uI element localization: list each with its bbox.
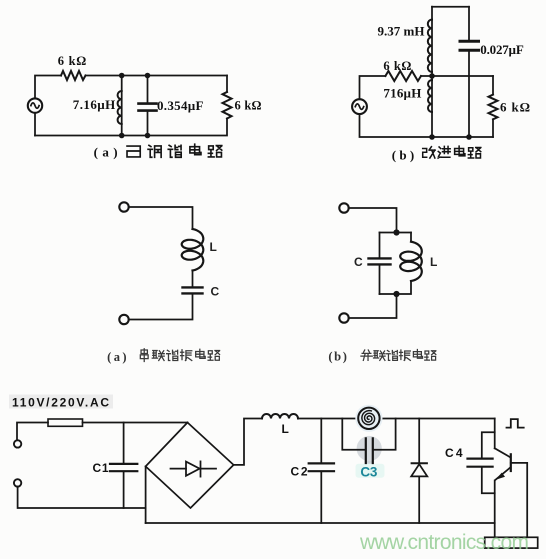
transistor Q1 base bar (510, 454, 512, 471)
wire: source top lead + top-left rail segment (35, 76, 61, 98)
bridge rectifier D1 diamond (146, 423, 234, 509)
svg-text:L: L (282, 422, 289, 436)
svg-text:www.cntronics.com: www.cntronics.com (359, 531, 529, 554)
svg-text:(b): (b) (392, 147, 415, 162)
capacitor C2 plates (309, 463, 334, 471)
capacitor C1 upper lead (123, 423, 125, 463)
terminal top (119, 202, 128, 211)
node dot top-left (119, 73, 125, 79)
inductor L1 7.16uH leads/stem (121, 76, 123, 136)
transistor Q1 collector diagonal (495, 448, 511, 457)
wire: middle rail left + source top lead (360, 76, 386, 99)
capacitor C1 plates (110, 464, 137, 471)
inductor L coil (horizontal) (262, 414, 298, 419)
C3 highlight circle (357, 436, 382, 461)
zener diode cathode bar (412, 462, 427, 464)
node dot bottom-right (145, 133, 151, 139)
inductor 9.37mH coil (431, 7, 433, 76)
caption (a) series resonant (107, 350, 127, 364)
wire: source bottom lead + bottom rail (360, 114, 494, 137)
wire: L branch upper lead (410, 233, 412, 242)
capacitor C4 lower lead loop (482, 468, 495, 493)
wire: C branch lower lead (379, 266, 381, 294)
svg-text:6 kΩ: 6 kΩ (383, 59, 411, 73)
wire: bridge right vertex to L coil (234, 419, 262, 465)
svg-text:9.37 mH: 9.37 mH (378, 23, 425, 38)
wire: right vertical upper lead (492, 76, 494, 95)
terminal bottom (119, 315, 128, 324)
node dot bottom (393, 291, 399, 297)
DC- bottom rail (146, 522, 495, 524)
wire: top rail from R1 to right corner (86, 75, 228, 77)
pulse waveform icon (507, 419, 524, 428)
C3 label halo (356, 464, 385, 478)
svg-text:C: C (354, 255, 363, 269)
wire: lower terminal lead + AC bottom rail (18, 487, 146, 508)
svg-text:L: L (210, 240, 217, 254)
node dot bottom-left (119, 133, 125, 139)
svg-text:C3: C3 (360, 464, 377, 479)
svg-text:L: L (430, 255, 437, 269)
inductor L (loops) (182, 229, 204, 271)
wire: between L and C (192, 271, 194, 287)
capacitor 0.027uF leads (468, 7, 470, 137)
wire: right vertical lower lead (492, 119, 494, 137)
wire: parallel top rail (380, 232, 412, 234)
terminal lower (14, 479, 21, 486)
terminal top (339, 203, 348, 212)
wire: rail from L to collector corner (298, 418, 495, 420)
wire: top lead (129, 207, 193, 229)
capacitor C 0.354uF plates (139, 104, 157, 111)
svg-text:0.027µF: 0.027µF (480, 42, 524, 57)
capacitor C 0.354uF leads (147, 76, 149, 136)
bridge internal diode symbol (171, 468, 187, 470)
capacitor C1 lower lead (123, 472, 125, 508)
svg-text:(b): (b) (328, 349, 347, 363)
caption (b) improved circuit (392, 147, 415, 162)
node dot top (393, 229, 399, 235)
AC source V2 (352, 99, 367, 114)
inductor 716uH coil (431, 76, 433, 137)
inductor L1 7.16uH coil (118, 91, 122, 124)
inductor L (loops) (400, 242, 422, 281)
svg-text:7.16µH: 7.16µH (73, 97, 116, 112)
svg-text:6 kΩ: 6 kΩ (235, 98, 262, 112)
capacitor C2 lower lead (320, 472, 322, 523)
node dot top-right (145, 73, 151, 79)
transistor Q1 base lead to load (511, 463, 527, 537)
resistor R1 6k horizontal (61, 71, 86, 80)
resistor 6k horizontal (b) (385, 71, 421, 81)
spiral bead symbol spiral (362, 411, 375, 425)
label 110V/220V.AC background (9, 395, 113, 409)
spiral bead symbol outer ring (358, 408, 379, 429)
svg-text:C1: C1 (93, 461, 109, 475)
svg-text:6 kΩ: 6 kΩ (500, 99, 530, 114)
caption (a) tuned circuit (94, 145, 118, 160)
terminal bottom (339, 313, 348, 322)
fuse F1 (48, 419, 83, 426)
C3 highlight band (366, 438, 372, 475)
wire: rail fuse to bridge top vertex (83, 422, 188, 424)
node dot bottom rail left (429, 134, 435, 140)
capacitor C3 plates (vertical) (366, 438, 373, 463)
node dot middle rail (429, 73, 435, 79)
svg-text:0.354µF: 0.354µF (157, 98, 204, 113)
wire: upper terminal lead + rail to fuse (17, 423, 48, 441)
wire: top rail (432, 6, 469, 8)
load block (485, 537, 538, 548)
zener diode triangle (411, 464, 427, 476)
capacitor C4 upper lead loop (482, 432, 495, 457)
capacitor C plates (369, 258, 391, 264)
transistor Q1 collector lead (494, 419, 496, 449)
wire: source bottom lead (34, 113, 36, 135)
wire: bridge left vertex down to DC- rail (145, 466, 147, 523)
transistor Q1 emitter lead (494, 481, 496, 538)
resistor 6k vertical right (b) (489, 95, 498, 120)
wire: middle rail right (421, 75, 493, 77)
resistor R2 6k vertical right (223, 92, 232, 119)
C3 loop right branch (374, 419, 396, 450)
wire: right vertical upper lead (226, 76, 228, 93)
spiral bead halo (355, 405, 382, 432)
zener diode upper lead (418, 419, 420, 464)
transistor Q1 emitter arrowhead (495, 473, 505, 480)
svg-text:(a): (a) (107, 350, 127, 364)
AC source V1 (28, 98, 42, 112)
caption (b) parallel resonant (328, 349, 347, 363)
capacitor C plates (183, 287, 203, 293)
svg-text:(a): (a) (94, 145, 118, 160)
svg-text:716µH: 716µH (383, 86, 421, 101)
transistor Q1 emitter diagonal (496, 468, 511, 480)
svg-text:C: C (211, 284, 220, 298)
node dot bottom rail right (466, 134, 472, 140)
svg-text:C2: C2 (291, 464, 308, 478)
zener diode lower lead (418, 476, 420, 523)
wire: bottom lead (129, 295, 193, 320)
wire: C branch upper lead (379, 233, 381, 258)
C3 loop left branch (342, 419, 364, 450)
terminal upper (14, 440, 21, 447)
capacitor 0.027uF plates (460, 41, 479, 50)
capacitor C4 plates (468, 459, 493, 467)
svg-text:6 kΩ: 6 kΩ (58, 54, 87, 68)
wire: bottom lead (349, 294, 397, 318)
wire: top lead to junction (349, 208, 397, 233)
capacitor C2 upper lead (320, 419, 322, 463)
wire: L branch lower lead + parallel bottom rail (380, 281, 412, 294)
wire: right vertical lower lead + bottom rail (35, 119, 227, 136)
